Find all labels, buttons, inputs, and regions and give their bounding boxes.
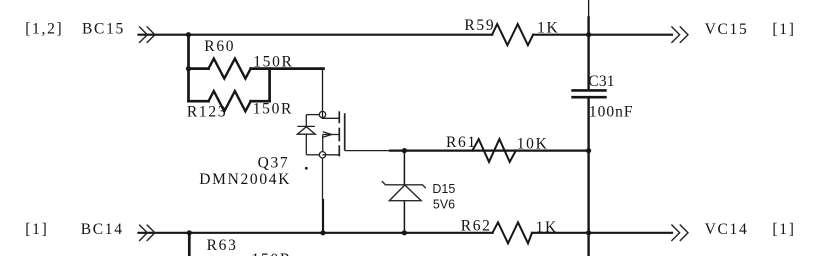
svg-text:1K: 1K bbox=[536, 219, 558, 236]
port chevron BC15 input bbox=[139, 27, 155, 43]
resistor R123 bbox=[209, 91, 251, 111]
stray dot near Q37 bbox=[305, 167, 308, 170]
wire BC14 horizontal net bbox=[139, 232, 493, 234]
port chevron BC14 input bbox=[139, 225, 155, 241]
svg-text:BC14: BC14 bbox=[81, 221, 124, 238]
junction dot source/BC14 bbox=[320, 230, 325, 235]
source pin lead down bbox=[322, 158, 324, 200]
svg-text:[1]: [1] bbox=[25, 221, 48, 238]
svg-text:VC14: VC14 bbox=[705, 221, 749, 238]
gate lead bbox=[345, 150, 391, 152]
port chevron VC15 output bbox=[671, 26, 688, 43]
wire D15 anode lead bbox=[403, 201, 405, 233]
channel segment 2 bbox=[338, 128, 340, 142]
svg-text:DMN2004K: DMN2004K bbox=[199, 171, 291, 188]
svg-text:150R: 150R bbox=[253, 53, 293, 70]
channel segment 1 bbox=[338, 111, 340, 123]
drain stub to channel bbox=[323, 117, 340, 119]
resistor R59 bbox=[492, 24, 533, 45]
junction dot BC14/R63 bbox=[187, 230, 192, 235]
transistor Q2 MOSFET body bbox=[297, 111, 390, 200]
wire R123 row bbox=[189, 100, 209, 103]
resistor R62 bbox=[493, 222, 533, 243]
svg-text:1K: 1K bbox=[537, 20, 559, 37]
port chevron VC14 output bbox=[671, 225, 688, 242]
wire R123 out bbox=[251, 100, 270, 103]
junction dot BC14/main rail bbox=[586, 230, 591, 235]
wire right vertical joining R123 to R60 row bbox=[268, 69, 271, 102]
pin circle source bbox=[319, 152, 325, 158]
svg-text:R62: R62 bbox=[461, 217, 492, 234]
zener triangle bbox=[389, 185, 421, 201]
wire R60 row bbox=[189, 67, 209, 70]
bulk stub with arrow bbox=[323, 134, 339, 136]
svg-text:5V6: 5V6 bbox=[433, 198, 455, 212]
junction dot D15/R61 bbox=[402, 148, 407, 153]
wire drain lead down bbox=[322, 69, 324, 118]
pin circle drain bbox=[319, 111, 325, 117]
wire left rail BC15 down to R123 bbox=[187, 35, 190, 102]
svg-text:VC15: VC15 bbox=[705, 21, 749, 38]
svg-text:[1]: [1] bbox=[772, 21, 795, 38]
junction dot BC15/main rail bbox=[586, 32, 591, 37]
wire rail vertical pin stub top bbox=[588, 0, 590, 18]
svg-text:R60: R60 bbox=[204, 38, 235, 55]
svg-text:C31: C31 bbox=[588, 73, 614, 90]
svg-text:R123: R123 bbox=[187, 104, 227, 121]
bulk tie down to source bbox=[322, 135, 324, 152]
svg-text:BC15: BC15 bbox=[82, 21, 125, 38]
body diode top lead bbox=[306, 114, 319, 116]
wire BC14 right of R62 to VC14 bbox=[532, 232, 672, 234]
wire R63 branch down from BC14 bbox=[188, 233, 191, 256]
junction dot BC15/left rail bbox=[186, 32, 191, 37]
svg-text:D15: D15 bbox=[432, 182, 455, 196]
wire BC15 horizontal net bbox=[139, 34, 493, 36]
wire rail vertical lower bbox=[587, 98, 589, 256]
junction dot R61/main rail bbox=[586, 148, 591, 153]
svg-text:150R: 150R bbox=[252, 251, 292, 256]
svg-text:10K: 10K bbox=[517, 136, 549, 153]
channel segment 3 bbox=[338, 145, 340, 156]
wire R60 out to MOSFET drain corner bbox=[251, 67, 324, 70]
resistor R60 bbox=[209, 59, 251, 79]
svg-text:[1]: [1] bbox=[772, 221, 795, 238]
svg-text:Q37: Q37 bbox=[258, 155, 290, 172]
svg-text:[1,2]: [1,2] bbox=[25, 21, 63, 38]
capacitor C31 bottom plate bbox=[573, 96, 606, 99]
resistor R61 bbox=[472, 139, 516, 162]
svg-text:R61: R61 bbox=[446, 134, 477, 151]
junction dot D15/BC14 bbox=[402, 230, 407, 235]
svg-text:R63: R63 bbox=[207, 237, 238, 254]
gate bar bbox=[344, 113, 346, 150]
wire MOSFET source to BC14 bbox=[322, 200, 324, 233]
body diode bottom lead bbox=[305, 134, 307, 155]
capacitor C31 top plate bbox=[573, 89, 606, 92]
body diode cathode bar bbox=[297, 125, 315, 127]
wire rail vertical upper bbox=[587, 18, 589, 90]
svg-text:R59: R59 bbox=[464, 17, 495, 34]
wire R61 gate net bbox=[390, 150, 589, 152]
body diode triangle bbox=[297, 127, 315, 135]
svg-text:150R: 150R bbox=[253, 101, 293, 118]
svg-text:100nF: 100nF bbox=[589, 104, 634, 121]
wire BC15 right of R59 to VC15 bbox=[533, 34, 672, 36]
diode D15 zener bbox=[382, 181, 426, 201]
junction dot R60 tap bbox=[186, 66, 191, 71]
source stub to channel bbox=[323, 154, 340, 156]
wire D15 cathode lead bbox=[403, 151, 405, 185]
zener cathode bar with end ticks bbox=[382, 181, 426, 188]
